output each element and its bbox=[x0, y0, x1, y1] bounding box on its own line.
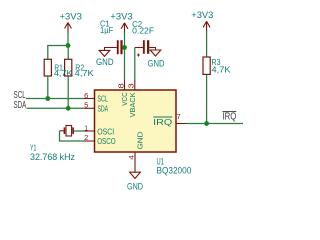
supply +3V3 label (middle) bbox=[110, 12, 133, 22]
ground label GND (C1) bbox=[96, 57, 114, 67]
pin number 1 bbox=[84, 124, 88, 133]
svg-text:1: 1 bbox=[84, 124, 88, 133]
pin 8 lead bbox=[124, 80, 126, 91]
resistor R2 bbox=[65, 59, 72, 76]
svg-text:IRQ: IRQ bbox=[223, 112, 237, 123]
pin 3 lead bbox=[134, 80, 136, 91]
pin 2 lead bbox=[84, 140, 95, 142]
svg-text:GND: GND bbox=[136, 131, 145, 150]
wire R2 bottom to SDA bbox=[67, 76, 69, 108]
wire SDA bbox=[27, 107, 85, 109]
wire crystal to OSCO bbox=[60, 131, 85, 141]
supply +3V3 label (right) bbox=[191, 10, 213, 20]
pin number 4 bbox=[129, 155, 136, 160]
svg-text:6: 6 bbox=[84, 91, 88, 100]
net label SDA bbox=[14, 100, 27, 111]
wire R3 bottom to IRQ bbox=[206, 74, 208, 123]
value 32.768 kHz bbox=[30, 152, 75, 162]
pin number 6 bbox=[84, 91, 88, 100]
pin 4 lead bbox=[134, 152, 136, 173]
pin number 8 bbox=[118, 83, 125, 89]
supply +3V3 arrow symbol (left) bbox=[65, 23, 72, 34]
value 4,7K (R2) bbox=[75, 69, 95, 78]
capacitor C2 left lead bbox=[135, 47, 143, 49]
pin 6 lead bbox=[84, 98, 95, 100]
crystal right lead wire to OSCI bbox=[74, 130, 84, 132]
svg-text:SDA: SDA bbox=[97, 103, 108, 113]
svg-text:+3V3: +3V3 bbox=[110, 12, 133, 22]
svg-text:IRQ: IRQ bbox=[153, 117, 173, 127]
wire to R1 top bbox=[48, 46, 68, 60]
wire IRQ net bbox=[187, 123, 244, 125]
pin name SCL bbox=[97, 93, 108, 103]
svg-text:8: 8 bbox=[118, 83, 125, 89]
svg-text:7: 7 bbox=[177, 112, 181, 121]
wire R2 top bbox=[67, 46, 69, 60]
wire VBACK bbox=[134, 48, 136, 80]
net label IRQ with overbar bbox=[223, 112, 237, 123]
pin name VBACK (vertical) bbox=[128, 92, 137, 117]
capacitor C2 right lead bbox=[149, 48, 155, 51]
pin name VCC (vertical) bbox=[120, 92, 129, 106]
junction dot on IRQ bbox=[204, 121, 209, 126]
supply +3V3 arrow symbol (middle) bbox=[121, 23, 128, 33]
svg-text:4,7K: 4,7K bbox=[212, 66, 232, 75]
svg-text:GND: GND bbox=[127, 182, 143, 192]
designator U1 bbox=[157, 156, 164, 166]
svg-text:4,7K: 4,7K bbox=[54, 69, 73, 78]
label Y1 bbox=[30, 144, 37, 153]
pin name SDA bbox=[97, 103, 108, 113]
capacitor C2 polarity plus bbox=[137, 53, 140, 56]
ground symbol (C2) bbox=[150, 50, 161, 56]
pin number 3 bbox=[129, 83, 136, 89]
pin number 2 bbox=[84, 133, 88, 142]
svg-text:GND: GND bbox=[96, 57, 114, 67]
pin number 7 bbox=[177, 112, 181, 121]
svg-text:OSCO: OSCO bbox=[97, 136, 116, 146]
value BQ32000 bbox=[157, 166, 192, 176]
pin 1 lead bbox=[84, 130, 95, 132]
resistor R1 bbox=[44, 59, 51, 76]
svg-text:32.768 kHz: 32.768 kHz bbox=[30, 152, 75, 162]
svg-text:1µF: 1µF bbox=[100, 25, 113, 35]
label R3 bbox=[212, 58, 221, 67]
wire R1 bottom to SCL bbox=[47, 76, 49, 99]
IC U1 body bbox=[95, 90, 177, 152]
svg-text:VBACK: VBACK bbox=[128, 92, 137, 117]
junction dot on SCL bbox=[45, 96, 50, 101]
capacitor C2 plates bbox=[143, 40, 149, 54]
svg-text:5: 5 bbox=[84, 101, 88, 110]
value 4,7K (R3) bbox=[212, 66, 232, 75]
svg-text:0.22F: 0.22F bbox=[132, 25, 154, 35]
resistor R3 bbox=[203, 57, 210, 74]
value 4,7K (R1) bbox=[54, 69, 73, 78]
ground label GND (U1) bbox=[127, 182, 143, 192]
pin name IRQ with overbar bbox=[153, 117, 173, 127]
junction dot on SDA bbox=[66, 106, 71, 111]
pin name OSCI bbox=[97, 127, 114, 137]
svg-text:4,7K: 4,7K bbox=[75, 69, 95, 78]
svg-text:3: 3 bbox=[129, 83, 136, 89]
junction dot at +3V3 left bbox=[66, 43, 71, 48]
capacitor C2 label bbox=[132, 19, 142, 29]
svg-text:SDA: SDA bbox=[14, 100, 27, 111]
capacitor C1 value 1uF bbox=[100, 25, 113, 35]
capacitor C1 label bbox=[100, 18, 110, 28]
svg-text:2: 2 bbox=[84, 133, 88, 142]
net label SCL bbox=[14, 90, 27, 101]
ground symbol (C1) bbox=[99, 50, 110, 56]
svg-text:+3V3: +3V3 bbox=[60, 11, 83, 21]
junction dot C1/VCC bbox=[122, 45, 127, 50]
wire SCL bbox=[26, 98, 84, 100]
pin 5 lead bbox=[84, 107, 95, 109]
wire +3V3 right stem bbox=[206, 31, 208, 57]
pin number 5 bbox=[84, 101, 88, 110]
crystal Y1 body bbox=[64, 126, 74, 137]
svg-text:4: 4 bbox=[129, 155, 136, 160]
svg-text:BQ32000: BQ32000 bbox=[157, 166, 192, 176]
ground symbol (U1) bbox=[130, 172, 141, 178]
label R1 bbox=[54, 63, 63, 72]
svg-text:SCL: SCL bbox=[97, 93, 108, 103]
wire +3V3 left stem bbox=[67, 33, 69, 46]
capacitor C1 plates bbox=[117, 40, 123, 54]
pin name GND (vertical) bbox=[136, 131, 145, 150]
supply +3V3 arrow symbol (right) bbox=[203, 21, 210, 31]
pin name OSCO bbox=[97, 136, 116, 146]
svg-text:+3V3: +3V3 bbox=[191, 10, 213, 20]
svg-text:GND: GND bbox=[148, 58, 165, 68]
capacitor C1 left lead bbox=[105, 48, 117, 51]
supply +3V3 label (left) bbox=[60, 11, 83, 21]
wire VCC rail bbox=[124, 33, 126, 80]
capacitor C1 right lead bbox=[123, 47, 125, 49]
ground label GND (C2) bbox=[148, 58, 165, 68]
pin 7 lead bbox=[176, 123, 187, 125]
capacitor C2 value 0.22F bbox=[132, 25, 154, 35]
crystal left lead bbox=[60, 130, 64, 132]
label R2 bbox=[75, 63, 84, 72]
